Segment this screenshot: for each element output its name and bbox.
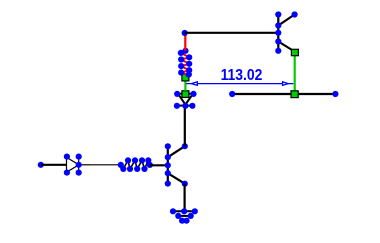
dimension arrow right <box>283 82 289 86</box>
inductor L2 <box>121 160 150 169</box>
wire collector up <box>184 106 186 146</box>
wire emitter to ground <box>184 184 186 212</box>
diode D2 <box>178 94 194 106</box>
red wire <box>184 33 186 51</box>
wire top <box>185 32 279 34</box>
handle square S3 <box>291 91 298 98</box>
diode D1 <box>67 157 91 173</box>
handle square S4 <box>291 49 298 55</box>
node top <box>182 30 188 36</box>
ground <box>172 211 196 220</box>
dimension line <box>186 83 293 85</box>
node <box>332 91 338 97</box>
svg-text:113.02: 113.02 <box>221 66 263 84</box>
handle square S2 <box>182 91 189 98</box>
transistor Q2 <box>278 14 294 51</box>
handle square S1 <box>182 74 189 81</box>
transistor Q1 <box>168 146 185 184</box>
green wire <box>184 81 186 91</box>
wire <box>90 164 121 166</box>
wire <box>41 164 67 166</box>
node <box>229 91 235 97</box>
wire base <box>150 164 168 166</box>
node left end <box>38 162 44 168</box>
green wire right <box>294 52 296 91</box>
inductor L1 <box>181 51 189 75</box>
wire bottom right <box>232 93 335 95</box>
dimension arrow left <box>192 82 198 86</box>
